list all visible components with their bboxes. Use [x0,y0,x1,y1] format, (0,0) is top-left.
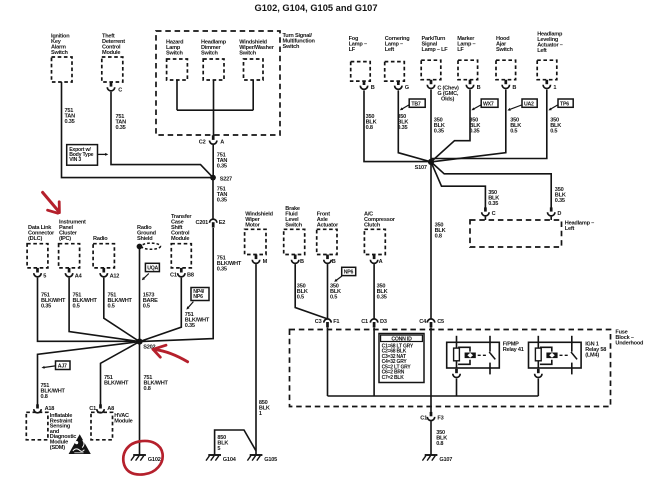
splice S227 (junction dot) [210,175,232,183]
title text G102, G104, G105 and G107 [255,3,378,13]
wire from connector C4-C5 through fuse block to connector C1-F3 [430,328,432,413]
component Cornering Lamp - Left (dashed box + label) [385,36,411,81]
callout box UQA with arrow to 1573 wire [142,263,160,280]
label 751 TAN 0.35 (ignition wire) [65,108,76,125]
svg-text:G107: G107 [439,457,452,463]
svg-text:0.35: 0.35 [555,198,565,204]
pin M of Windshield Wiper Motor [252,255,267,265]
pin B of Fog Lamp LF [360,81,375,91]
wire 350 BLK 0.8 from Fog Lamp to splice S107 [364,90,431,161]
wire 751 BLK/WHT 0.35 from DLC pin 5 to splice S202 [38,278,140,342]
label 350 BLK 0.5 (leveling actuator wire) [550,118,561,135]
wire 751 BLK/WHT 0.35 from connector C201-E2 down to splice S202 [140,228,214,342]
annotation red circle around ground G102 [123,441,162,475]
wire 350 BLK 0.35 from Park/Turn Signal Lamp to splice S107 [430,90,432,162]
svg-text:NP6: NP6 [193,294,203,300]
svg-text:0.35: 0.35 [217,267,227,273]
svg-text:A: A [379,259,383,265]
callout box Export w/ Body Type VIN 3 with arrow to theft wire [67,145,109,166]
svg-text:Shield: Shield [137,236,153,242]
label 850 BLK 5 (G104 wire) [217,435,228,452]
svg-text:D3: D3 [380,319,387,325]
svg-text:C: C [118,88,122,94]
component Theft Deterrent Control Module (dashed box + label) [102,34,125,83]
svg-text:1: 1 [259,411,262,417]
svg-text:0.5: 0.5 [330,295,337,301]
svg-text:Module: Module [102,50,120,56]
callout box AJ7 with arrow to SDM wire [42,361,71,370]
pin B of Marker Lamp [466,80,480,91]
pin G of Cornering Lamp [395,81,409,91]
svg-text:0.5: 0.5 [73,304,80,310]
enclosure Turn Signal/Multifunction Switch (large dashed box) [156,31,316,135]
wire 751 TAN 0.35 from Ignition Key Alarm Switch to splice S227 [62,82,214,178]
svg-text:0.35: 0.35 [397,125,407,131]
component Windshield Wiper Motor (dashed box + label) [245,212,274,255]
svg-text:C1: C1 [361,319,368,325]
connector C4 / C5 (inline connector) [419,319,444,328]
svg-text:A: A [220,140,224,146]
label 1573 BARE 0.5 (shield wire) [143,293,158,310]
svg-text:C2: C2 [199,140,206,146]
svg-text:NP6: NP6 [344,270,354,276]
svg-text:Left: Left [537,48,547,54]
svg-text:Underhood: Underhood [615,341,644,347]
label 350 BLK 0.35 (A/C clutch wire) [377,284,388,301]
wire 350 BLK 0.35 from Cornering Lamp to splice S107 [398,90,431,161]
svg-text:0.5: 0.5 [108,304,115,310]
svg-text:G102, G104, G105 and G107: G102, G104, G105 and G107 [255,3,378,13]
svg-text:0.35: 0.35 [488,201,498,207]
svg-text:0.35: 0.35 [116,125,126,131]
svg-text:Actuator: Actuator [317,223,339,229]
relay IGN 1 Relay 58 (LM4) (coil + contact symbol in solid box) [529,336,607,375]
svg-text:Switch: Switch [166,51,184,57]
component Inflatable Restraint Sensing and Diagnostic Module (SDM) (dashed box + label) [26,412,76,451]
component Hazard Lamp Switch (dashed box + label) [166,40,187,81]
svg-text:0.5: 0.5 [143,304,150,310]
svg-text:Module: Module [114,418,132,424]
connector C1 / D3 (inline connector) [361,319,387,328]
svg-text:TP6: TP6 [560,101,569,107]
label 350 BLK 0.35 (cornering lamp wire) [397,114,408,131]
wire 350 BLK 0.5 from Brake Fluid Level Switch to connector C3-F1 [295,264,327,319]
svg-text:0.35: 0.35 [217,198,227,204]
wire 751 BLK/WHT 0.5 from IPC pin A4 to splice S202 [69,278,139,342]
svg-text:Lamp – LF: Lamp – LF [422,47,449,53]
splice S202 (junction dot) [136,339,155,351]
ground G102 [131,455,161,463]
label 350 BLK 0.35 (marker lamp wire) [469,118,480,135]
svg-text:Radio: Radio [93,236,108,242]
svg-text:C1: C1 [170,273,177,279]
connector C3 / F1 (inline connector) [315,319,340,328]
label 751 BLK/WHT 0.5 (radio wire) [108,293,133,310]
wire 350 BLK 0.35 from A/C Compressor Clutch to connector C1-D3 [373,264,375,319]
svg-text:0.8: 0.8 [436,441,443,447]
label 350 BLK 0.8 (S107 down wire) [435,223,446,240]
svg-text:Module: Module [171,236,189,242]
pin 1 of Headlamp Leveling Actuator [543,80,556,91]
label 751 BLK/WHT 0.8 (SDM wire) [41,383,66,400]
label 350 BLK 0.35 (headlamp D wire) [555,187,566,204]
label 751 BLK/WHT (HVAC wire) [104,375,129,387]
wire 350 BLK 0.35 from splice S107 to Headlamp-Left pin D [431,162,551,208]
label 350 BLK 0.5 (hood ajar wire) [510,118,521,135]
component Front Axle Actuator (dashed box + label) [317,212,339,255]
svg-text:C: C [492,211,496,217]
svg-text:G104: G104 [223,457,237,463]
component Park/Turn Signal Lamp - LF (dashed box + label) [421,36,448,80]
svg-text:5: 5 [43,273,46,279]
svg-text:C4: C4 [419,319,427,325]
callout box NP6 with arrow to front axle wire [334,267,356,282]
callout box UA2 with arrow to hood ajar wire [507,99,537,111]
component Windshield Wiper/Washer Switch (dashed box + label) [239,40,274,81]
svg-text:G: G [405,85,409,91]
annotation red arrow pointing at Instrument Panel Cluster [43,192,60,213]
svg-text:A12: A12 [110,273,120,279]
label 751 BLK/WHT 0.8 (G102 wire) [144,375,169,392]
component HVAC Module (dashed box + label) [91,412,133,440]
wire 1573 BARE 0.5 from Radio Ground Shield to splice S202 [139,249,141,342]
wire 350 BLK 0.35 from Marker Lamp to splice S107 [431,90,470,162]
component A/C Compressor Clutch (dashed box + label) [364,212,396,255]
pins C1 / A8 of HVAC Module [89,404,114,413]
svg-text:Motor: Motor [245,223,260,229]
component Headlamp - Left (dashed box + label) [470,220,594,247]
svg-text:LF: LF [349,47,356,53]
svg-text:AJ7: AJ7 [58,363,67,369]
svg-text:S227: S227 [220,176,232,182]
svg-text:VIN 3: VIN 3 [69,157,81,163]
pin A12 of Radio [100,268,119,280]
wire 350 BLK 0.8 from splice S107 down to connector C4-C5 [430,162,432,319]
wire 751 BLK/WHT 0.8 from splice S202 to SDM pin A18 [38,342,140,405]
component Hood Ajar Switch (dashed box + label) [496,36,516,80]
label 751 BLK/WHT 0.35 (transfer case wire) [185,312,210,329]
svg-text:B: B [477,85,481,91]
pin B of Front Axle Actuator [324,255,336,265]
wire 751 TAN 0.35 from splice S227 to connector C201-E2 [212,178,214,220]
svg-text:Switch: Switch [285,223,303,229]
svg-text:0.8: 0.8 [144,386,151,392]
svg-text:B: B [512,85,516,91]
ground G104 [206,455,237,463]
splice S107 (junction dot) [415,159,435,171]
svg-text:F1: F1 [333,319,339,325]
svg-text:BLK/WHT: BLK/WHT [104,381,129,387]
svg-text:0.8: 0.8 [435,234,442,240]
component Instrument Panel Cluster (IPC) (dashed box + label) [59,220,86,268]
svg-text:0.35: 0.35 [41,304,51,310]
pin A of A/C Compressor Clutch [370,255,382,265]
component Headlamp Leveling Actuator - Left (dashed box + label) [537,32,563,80]
pin of F/PMP Relay 41 to internal bus [453,369,460,396]
svg-text:Switch: Switch [239,51,257,57]
svg-text:C1: C1 [89,406,96,412]
pin B of Brake Fluid Level Switch [292,255,305,265]
svg-text:Relay 41: Relay 41 [503,347,524,353]
svg-text:CONN ID: CONN ID [391,336,412,342]
label 751 TAN 0.35 (theft wire) [116,114,127,131]
svg-text:(IPC): (IPC) [59,236,71,242]
svg-text:Left: Left [565,226,575,232]
label 850 BLK 1 (wiper motor wire) [259,400,270,417]
svg-text:LF: LF [457,47,464,53]
component Brake Fluid Level Switch (dashed box + label) [284,206,305,255]
svg-text:0.35: 0.35 [377,295,387,301]
svg-text:A4: A4 [75,273,83,279]
table CONN ID inside fuse block [379,334,424,383]
pin D of Headlamp - Left [548,207,562,220]
svg-text:A18: A18 [45,406,55,412]
wire 350 BLK 0.5 from Hood Ajar Switch to splice S107 [431,90,506,162]
svg-text:0.5: 0.5 [297,295,304,301]
svg-text:WX7: WX7 [483,101,494,107]
node Radio Ground Shield (dot with dashed shield ellipse + label) [137,225,161,249]
svg-text:5: 5 [217,446,220,452]
svg-text:Switch: Switch [51,50,69,56]
callout box NP4/NP6 with arrow to transfer-case wire [186,288,209,310]
svg-text:(SDM): (SDM) [50,445,65,451]
pin C(Chev)/G(GMC,Olds) of Park/Turn Signal Lamp [427,80,459,103]
label 751 TAN 0.35 (above S227) [217,153,228,170]
svg-text:UA2: UA2 [524,101,534,107]
svg-text:(DLC): (DLC) [28,236,42,242]
svg-text:0.5: 0.5 [550,129,557,135]
svg-text:A8: A8 [107,406,114,412]
connector C1 / F3 (inline connector at fuse block bottom) [420,412,443,422]
wire from connector C3-F1 into fuse block to internal bus [327,328,329,396]
label 751 BLK/WHT 0.35 (DLC wire) [41,293,66,310]
component Ignition Key Alarm Switch (dashed box + label) [51,34,72,83]
component Radio (dashed box + label) [93,236,114,268]
svg-text:G102: G102 [148,457,161,463]
connector C2 / A (inline connector) [199,135,225,145]
svg-text:TB7: TB7 [411,101,420,107]
ground G105 [247,455,277,463]
svg-text:0.35: 0.35 [185,323,195,329]
svg-text:Switch: Switch [283,44,301,50]
svg-text:0.35: 0.35 [469,129,479,135]
component Transfer Case Shift Control Module (dashed box + label) [171,214,192,268]
wire 350 BLK 0.8 from connector C1-F3 to ground G107 [430,421,432,455]
label 751 BLK/WHT 0.5 (IPC wire) [73,293,98,310]
svg-text:B8: B8 [187,273,194,279]
pins C1 / B8 of Transfer Case Shift Control Module [170,268,194,279]
label 350 BLK 0.8 (fog lamp wire) [366,114,377,131]
svg-text:C3: C3 [315,319,322,325]
wire bus joining hazard, dimmer and wiper/washer switches [177,80,253,136]
wire 850 BLK 5 branch to ground G104 [215,430,256,455]
pin A18 of Inflatable Restraint SDM [34,404,55,413]
component Marker Lamp - LF (dashed box + label) [457,36,477,80]
pin 5 of Data Link Connector [34,268,46,280]
svg-text:C7=2 BLK: C7=2 BLK [382,375,405,381]
wire 751 BLK/WHT 0.5 from Radio pin A12 to splice S202 [104,278,140,342]
svg-text:C1: C1 [420,416,427,422]
relay F/PMP Relay 41 (coil + contact symbol in solid box) [447,336,524,375]
svg-text:Left: Left [385,47,395,53]
svg-text:C201: C201 [196,220,209,226]
svg-text:Clutch: Clutch [364,223,381,229]
component Fog Lamp - LF (dashed box + label) [349,36,371,81]
svg-text:B: B [371,85,375,91]
svg-text:0.8: 0.8 [366,125,373,131]
annotation red arrow pointing at splice S202 [153,345,188,362]
svg-text:UQA: UQA [147,266,158,272]
enclosure Fuse Block - Underhood (large dashed box) [290,330,645,407]
wire 350 BLK 0.5 from Front Axle Actuator to connector C3-F1 [327,264,329,319]
svg-text:S107: S107 [415,165,427,171]
pin B of Hood Ajar Switch [502,80,516,91]
label 350 BLK 0.35 (park/turn wire) [434,118,445,135]
svg-text:1: 1 [553,85,556,91]
pin of IGN 1 Relay 58 to internal bus [535,369,542,396]
wire 751 BLK/WHT 0.8 from splice S202 to ground G102 [139,342,141,455]
svg-text:0.8: 0.8 [41,394,48,400]
wire 350 BLK 0.5 from Headlamp Leveling Actuator to splice S107 [431,90,547,159]
callout box WX7 with arrow to marker lamp wire [471,99,498,110]
svg-text:(LM4): (LM4) [585,353,599,359]
svg-text:B: B [300,259,304,265]
label 350 BLK 0.35 (headlamp C wire) [488,190,499,207]
wire 751 TAN 0.35 from connector C2-A to splice S227 [212,145,214,178]
warning triangle symbol (SIR caution) next to SDM [69,434,91,454]
svg-text:0.35: 0.35 [65,119,75,125]
wire from connector C1-D3 into fuse block to internal bus [373,328,375,396]
pin C of Theft Deterrent Control Module [107,82,122,94]
callout box TP6 with arrow to leveling actuator wire [548,99,573,110]
wire 751 TAN 0.35 from Theft module pin C to splice S227 [111,92,213,178]
svg-text:E2: E2 [219,220,226,226]
wire 751 BLK/WHT 0.35 from Transfer Case module to splice S202 [140,278,182,342]
svg-text:Switch: Switch [201,51,219,57]
svg-text:Switch: Switch [496,47,514,53]
svg-text:M: M [263,259,268,265]
svg-text:F3: F3 [437,416,443,422]
internal ground bus inside fuse block [328,395,539,397]
svg-text:C5: C5 [437,319,444,325]
svg-text:0.35: 0.35 [217,164,227,170]
label 751 TAN 0.35 (below S227) [217,187,228,204]
svg-text:D: D [557,211,561,217]
wire 751 BLK/WHT from splice S202 to HVAC pin A8 [101,342,140,405]
connector C201 / E2 (inline connector) [196,219,226,227]
wire 850 BLK 1 from Windshield Wiper Motor to ground G105 [255,264,257,455]
label 751 BLK/WHT 0.35 (C201 to S202 wire) [217,256,242,273]
svg-text:Olds): Olds) [441,97,455,103]
ground G107 [422,455,452,463]
svg-text:B: B [332,259,336,265]
svg-text:G105: G105 [264,457,277,463]
label 350 BLK 0.8 (G107 wire) [436,430,447,447]
component Headlamp Dimmer Switch (dashed box + label) [201,40,227,81]
component Data Link Connector (DLC) (dashed box + label) [27,225,55,268]
svg-text:0.35: 0.35 [434,129,444,135]
pin A4 of Instrument Panel Cluster [65,268,82,280]
svg-text:0.5: 0.5 [510,129,517,135]
label 350 BLK 0.5 (front axle wire) [330,284,341,301]
label 350 BLK 0.5 (brake fluid wire) [297,284,308,301]
callout box TB7 with arrow to cornering lamp wire [400,99,425,110]
pin C of Headlamp - Left [482,207,496,220]
wire 350 BLK 0.35 from splice S107 to Headlamp-Left pin C [431,162,485,208]
